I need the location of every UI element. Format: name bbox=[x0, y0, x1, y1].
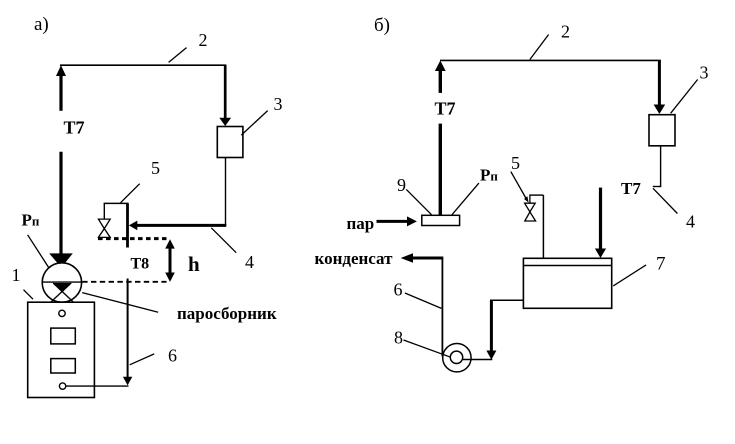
arrow T7 up (b) bbox=[435, 61, 446, 216]
label T7 (a) bbox=[64, 118, 85, 138]
wire kondensat down to pump (b) bbox=[441, 258, 443, 357]
label 6 pointer (a) bbox=[130, 354, 155, 365]
wire down to box 3 (a) bbox=[219, 65, 231, 126]
svg-text:паросборник: паросборник bbox=[177, 304, 277, 323]
label kondensat bbox=[315, 249, 394, 268]
label Rp (b) bbox=[480, 166, 498, 185]
label 3 (a) bbox=[274, 94, 283, 114]
apparatus box 1 (a) bbox=[28, 302, 95, 397]
wire bottom horizontal (a) bbox=[66, 385, 129, 387]
label 5 pointer (a) bbox=[121, 184, 140, 203]
svg-text:а): а) bbox=[34, 14, 49, 35]
box 3 (a) bbox=[217, 127, 243, 158]
pump 8 inner circle (b) bbox=[450, 351, 462, 363]
label 2 pointer (b) bbox=[530, 35, 549, 60]
wire 6 vertical with down arrow (a) bbox=[123, 279, 132, 386]
label h (a) bbox=[188, 252, 200, 276]
valve (a) bbox=[98, 219, 110, 237]
label 7 (b) bbox=[656, 253, 666, 274]
svg-text:конденсат: конденсат bbox=[315, 249, 394, 268]
pump 8 outer circle (b) bbox=[443, 344, 471, 372]
tank outlet corner wire (b) bbox=[490, 299, 523, 301]
box 1 window lower bbox=[51, 359, 76, 373]
svg-text:4: 4 bbox=[245, 252, 254, 272]
arrow T7 up (a) bbox=[56, 65, 66, 253]
steam collector internals (a) bbox=[42, 282, 81, 302]
label 3 pointer (b) bbox=[671, 80, 698, 114]
label 1 (a) bbox=[12, 265, 21, 285]
label T7 (b right) bbox=[621, 179, 641, 198]
svg-text:Т8: Т8 bbox=[131, 255, 150, 272]
label 4 pointer (b) bbox=[653, 188, 677, 213]
svg-text:9: 9 bbox=[397, 175, 406, 195]
label 8 pointer (b) bbox=[404, 340, 443, 354]
svg-text:3: 3 bbox=[700, 63, 709, 83]
wire box3 down (a) bbox=[225, 158, 227, 226]
label 4 (a) bbox=[245, 252, 254, 272]
label 2 (a) bbox=[199, 30, 208, 50]
label Rp (a) bbox=[22, 210, 40, 229]
box 3 (b) bbox=[649, 115, 675, 146]
svg-text:Т7: Т7 bbox=[621, 179, 641, 198]
label par bbox=[347, 214, 375, 233]
dashed level line upper (a) bbox=[98, 237, 167, 240]
label 1 pointer (a) bbox=[24, 290, 34, 300]
pump outlet wire (b) bbox=[463, 359, 493, 361]
dimension arrow h (a) bbox=[165, 239, 175, 282]
label 5 pointer with arrowhead (b) bbox=[511, 172, 529, 203]
label Rp pointer (a) bbox=[28, 235, 49, 268]
label 3 (b) bbox=[700, 63, 709, 83]
label b) bbox=[374, 15, 390, 36]
pump 8 pointer tail inside (b) bbox=[443, 354, 451, 357]
tank outlet arrow down (b) bbox=[486, 300, 496, 359]
tank 7 (b) bbox=[523, 258, 611, 308]
label 6 (b) bbox=[394, 280, 403, 300]
svg-text:5: 5 bbox=[511, 153, 520, 173]
wire box3 down with hook (b) bbox=[653, 146, 662, 187]
label 2 pointer (a) bbox=[169, 48, 187, 63]
label 9 (b) bbox=[397, 175, 406, 195]
label a) bbox=[34, 14, 49, 35]
label 6 pointer (b) bbox=[405, 293, 442, 308]
label 3 pointer (a) bbox=[241, 111, 267, 136]
parosbornik pointer bbox=[82, 293, 158, 313]
dashed level line lower (a) bbox=[82, 281, 166, 283]
wire down to box 3 (b) bbox=[654, 60, 666, 114]
svg-text:4: 4 bbox=[686, 212, 695, 232]
svg-text:Рп: Рп bbox=[480, 166, 498, 185]
arrow T7 down into tank (b) bbox=[595, 188, 606, 258]
svg-text:2: 2 bbox=[199, 30, 208, 50]
label 5 (b) bbox=[511, 153, 520, 173]
svg-text:6: 6 bbox=[394, 280, 403, 300]
label 2 (b) bbox=[561, 22, 570, 42]
label T7 (b left) bbox=[435, 99, 456, 119]
svg-text:Т7: Т7 bbox=[64, 118, 85, 138]
kondensat outlet arrow bbox=[401, 253, 444, 263]
svg-text:6: 6 bbox=[168, 345, 177, 365]
wire 2 top horizontal (a) bbox=[60, 64, 226, 66]
svg-text:7: 7 bbox=[656, 253, 666, 274]
label Rp pointer (b) bbox=[452, 183, 479, 215]
wire 2 top horizontal (b) bbox=[440, 59, 661, 61]
svg-text:8: 8 bbox=[394, 328, 403, 348]
label 4 (b) bbox=[686, 212, 695, 232]
box 1 bottom port bbox=[59, 383, 65, 389]
label 6 (a) bbox=[168, 345, 177, 365]
valve pipe down to tank (b) bbox=[542, 195, 544, 258]
svg-text:2: 2 bbox=[561, 22, 570, 42]
svg-text:Т7: Т7 bbox=[435, 99, 456, 119]
label 9 pointer (b) bbox=[406, 189, 431, 214]
label T8 (a) bbox=[131, 255, 150, 272]
svg-text:Рп: Рп bbox=[22, 210, 40, 229]
component 5 body lines (a) bbox=[104, 203, 129, 247]
arrowhead into steam collector (a) bbox=[49, 253, 73, 267]
svg-text:h: h bbox=[188, 252, 200, 276]
valve 5 (b) bbox=[525, 195, 544, 221]
svg-text:б): б) bbox=[374, 15, 390, 36]
steam sparger bar 9 (b) bbox=[422, 215, 460, 225]
par inlet arrow bbox=[377, 216, 417, 226]
label parosbornik bbox=[177, 304, 277, 323]
steam collector circle (a) bbox=[42, 263, 81, 302]
svg-text:5: 5 bbox=[151, 158, 160, 178]
label 7 pointer (b) bbox=[613, 265, 646, 286]
label 4 pointer (a) bbox=[211, 228, 236, 253]
label 8 (b) bbox=[394, 328, 403, 348]
box 1 window upper bbox=[51, 328, 76, 344]
svg-text:1: 1 bbox=[12, 265, 21, 285]
box 1 top port bbox=[59, 310, 65, 316]
svg-text:пар: пар bbox=[347, 214, 375, 233]
wire 4 thick with left arrow (a) bbox=[129, 221, 226, 231]
svg-text:3: 3 bbox=[274, 94, 283, 114]
label 5 (a) bbox=[151, 158, 160, 178]
